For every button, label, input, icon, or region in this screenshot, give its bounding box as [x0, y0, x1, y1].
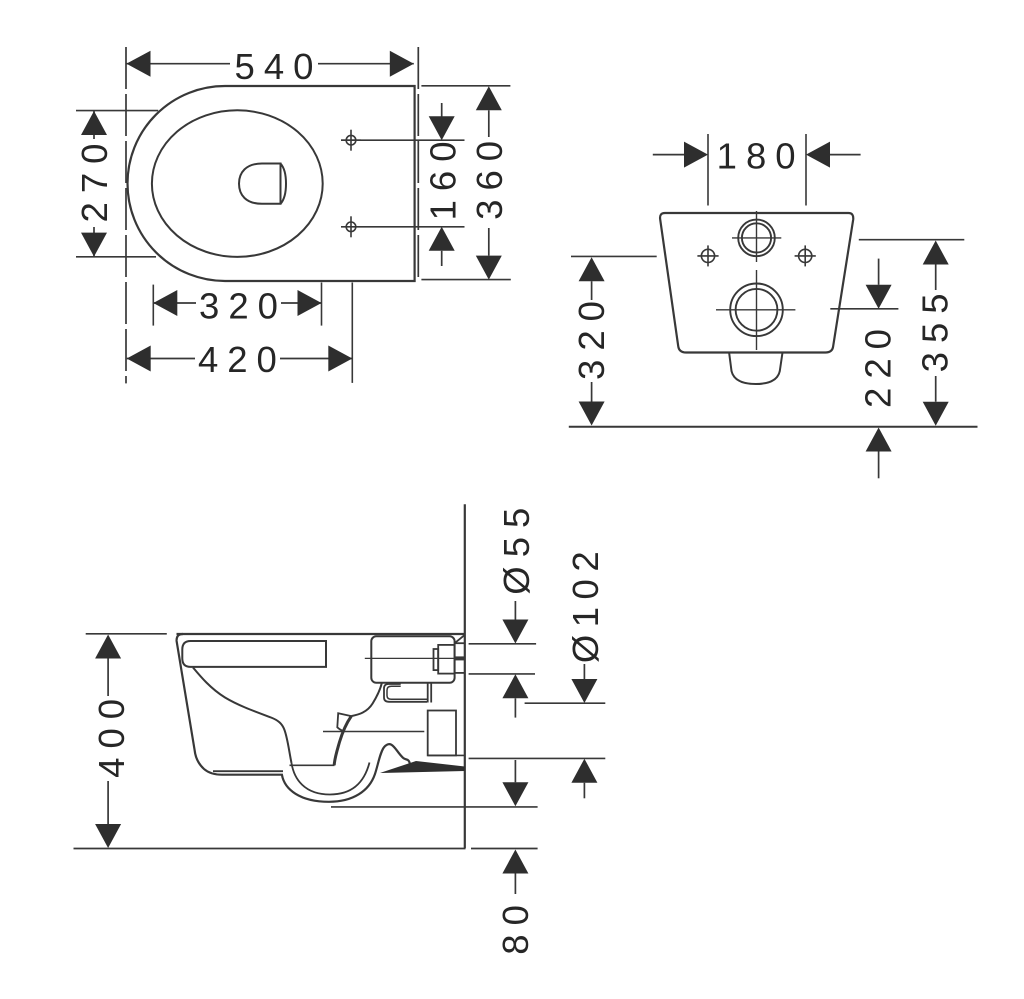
- svg-text:180: 180: [717, 136, 805, 177]
- svg-text:160: 160: [423, 132, 464, 220]
- svg-text:220: 220: [858, 320, 899, 408]
- svg-text:320: 320: [571, 292, 612, 380]
- svg-text:320: 320: [199, 286, 287, 327]
- svg-text:360: 360: [469, 132, 510, 220]
- svg-text:Ø102: Ø102: [565, 544, 606, 663]
- svg-text:540: 540: [235, 46, 323, 87]
- svg-text:80: 80: [495, 896, 536, 955]
- svg-text:270: 270: [74, 135, 115, 223]
- svg-text:355: 355: [914, 284, 955, 372]
- svg-text:Ø55: Ø55: [496, 499, 537, 595]
- svg-text:400: 400: [91, 690, 132, 778]
- svg-text:420: 420: [198, 339, 286, 380]
